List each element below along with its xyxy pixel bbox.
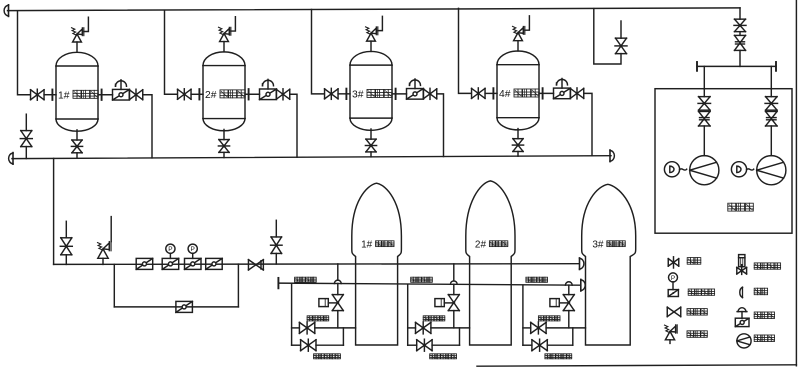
gate valve on stub A <box>60 238 72 265</box>
hydraulic gate valve stove 2 <box>435 295 459 311</box>
pipe riser from top header to tank 4 inlet <box>459 8 472 93</box>
pipe tank 1 discharge drop <box>143 95 152 158</box>
pipe stub with valve left of tank 1 <box>25 114 27 158</box>
legend safety valve symbol <box>665 325 678 344</box>
equalizing loop stove 2 <box>408 328 460 345</box>
header end tick right <box>775 62 777 71</box>
pipe L-branch from top header <box>594 9 621 64</box>
hydraulic gate valve stove 1 <box>319 295 343 311</box>
pipe stove 1 branch left leg <box>291 284 293 346</box>
safety relief valve on lower main <box>98 242 112 265</box>
pipe inlet spool tank 1 <box>44 94 56 96</box>
jump-over on 冷风总管 at stove 3 <box>565 282 572 285</box>
label 冷风总管 stove 1 <box>295 277 317 282</box>
label 1#空气罐 <box>58 90 98 101</box>
cold blast main pipe 冷风总管 <box>278 283 580 285</box>
gate valve on equalizing loop stove 3 <box>532 339 547 351</box>
gate valve on branch stove 1 <box>299 322 314 334</box>
cold blast main start tick <box>277 278 279 288</box>
svg-text:3#: 3# <box>592 240 604 251</box>
pipe compressor 1 discharge <box>703 89 705 96</box>
flange tick tank 2 inlet <box>198 89 200 99</box>
pipe stub B <box>275 220 277 237</box>
gate valve on station drop <box>734 19 746 32</box>
gate valve on branch stove 2 <box>416 322 431 334</box>
gate valve tank 3 outlet <box>423 88 437 99</box>
pipe stove 2 blast drop upper <box>453 264 455 281</box>
drawing border right <box>795 0 797 366</box>
pipe tank 1 drain stub <box>76 130 78 140</box>
flange tick tank 3 inlet <box>345 89 347 99</box>
label 煤气均压管 stove 3 <box>545 354 572 359</box>
flange tick tank 2 outlet <box>248 89 250 99</box>
pneumatic butterfly valve tank 3 <box>407 79 424 99</box>
hydraulic gate valve stove 3 <box>550 295 574 311</box>
label 冷风支管 stove 1 <box>307 316 329 321</box>
legend label 闸阀 <box>687 258 701 265</box>
pipe tank 1 drain to header <box>76 153 78 158</box>
pneumatic butterfly valve tank 2 <box>260 79 277 99</box>
pipe riser from top header to tank 3 inlet <box>312 9 325 93</box>
drawing border bottom <box>477 365 796 366</box>
jump-over on 冷风总管 at stove 1 <box>334 280 341 283</box>
pipe stove 2 blast drop lower <box>453 284 455 294</box>
pipe L-branch stub <box>620 21 622 38</box>
legend pneumatic butterfly valve symbol <box>668 273 678 297</box>
label 2#空气罐 <box>205 90 245 101</box>
gate valve tank 4 inlet <box>472 88 486 99</box>
label 3# 热风炉 <box>592 240 625 251</box>
svg-text:2#: 2# <box>475 240 487 251</box>
pipe stove 2 drop to branch <box>453 311 455 328</box>
pipe tank 2 drain to header <box>223 152 225 157</box>
pipe stove 3 drop to branch <box>568 311 570 328</box>
pipe tank 4 discharge drop <box>584 93 592 155</box>
hot blast stove 1#热风炉 <box>352 183 402 345</box>
equalizing loop stove 3 <box>523 328 573 345</box>
air tank 3#空气罐 vessel <box>350 51 392 130</box>
pipe bypass riser <box>237 264 239 307</box>
pipe tank 2 outlet <box>245 93 260 95</box>
gate valve tank 2 outlet <box>276 89 290 100</box>
svg-text:P: P <box>671 275 675 282</box>
compressor suction header <box>697 65 776 67</box>
pneumatic butterfly valve 3 lower main <box>185 258 202 269</box>
pipe riser from top header to tank 2 inlet <box>165 11 178 95</box>
legend gate valve symbol <box>668 257 679 268</box>
pneumatic butterfly valve tank 4 <box>554 79 571 99</box>
air compressor 1 空压机 <box>690 156 719 185</box>
pipe inlet spool tank 2 <box>191 93 203 95</box>
pipe bottom collecting header <box>12 156 611 159</box>
gate valve on branch stove 3 <box>531 322 546 334</box>
pipe compressor 1 discharge upper <box>703 66 705 89</box>
pipe tank 1 outlet <box>98 94 113 96</box>
hot blast stove 3#热风炉 <box>582 184 636 345</box>
pneumatic butterfly valve 1 lower main <box>136 258 153 269</box>
safety valve tank 3 <box>366 16 383 41</box>
label 3#空气罐 <box>352 89 392 100</box>
pipe compressor 2 riser <box>770 126 772 156</box>
svg-text:P: P <box>191 246 195 253</box>
gate valve tank 4 outlet <box>570 88 584 99</box>
pipe tank 4 outlet <box>539 92 554 94</box>
gate valve compressor 2 <box>765 97 778 111</box>
gate valve tank 1 outlet <box>129 89 143 100</box>
gate valve on equalizing loop stove 1 <box>301 339 316 351</box>
compressor station boundary box <box>655 89 792 234</box>
cold blast branch 冷风支管 stove 1 <box>292 327 356 329</box>
pipe tank 2 relief stub <box>223 42 225 52</box>
legend label 安全阀 <box>687 331 707 338</box>
pipe main top header <box>8 8 741 11</box>
check valve compressor 1 <box>699 111 711 126</box>
pipe tank 1 relief stub <box>76 42 78 52</box>
pipe inlet spool tank 4 <box>485 92 497 94</box>
label 煤气均压管 stove 2 <box>430 354 457 359</box>
gate valve tank 1 inlet <box>31 89 45 100</box>
air tank 2#空气罐 vessel <box>203 52 245 131</box>
gate valve tank 2 drain <box>218 140 229 153</box>
air compressor 2 空压机 <box>757 156 786 185</box>
label 冷风支管 stove 2 <box>423 316 445 321</box>
pipe compressor 1 riser <box>703 126 705 156</box>
label 冷风支管 stove 3 <box>538 316 560 321</box>
pipe tank 3 outlet <box>392 93 407 95</box>
equalizing loop stove 1 <box>292 328 344 345</box>
safety valve tank 2 <box>219 17 236 42</box>
legend hydraulic gate valve symbol <box>737 255 747 275</box>
svg-text:1#: 1# <box>361 240 373 251</box>
check valve lower main <box>248 260 263 270</box>
svg-text:3#: 3# <box>352 89 364 100</box>
gate valve on L-branch <box>615 38 627 54</box>
flange tick tank 1 inlet <box>51 90 53 100</box>
legend label 气动碟阀 <box>688 289 714 295</box>
gate valve compressor 1 <box>698 97 711 111</box>
end cap lower main right <box>580 258 584 270</box>
pipe bypass run <box>114 306 238 308</box>
pipe stove 1 blast drop lower <box>337 284 339 295</box>
jump-over on 冷风总管 at stove 2 <box>450 281 457 284</box>
pneumatic butterfly valve tank 1 <box>113 80 130 100</box>
pipe stove 1 drop to branch <box>337 311 339 328</box>
label 冷风总管 stove 3 <box>526 277 548 282</box>
pipe tank 3 drain stub <box>370 129 372 139</box>
air tank 4#空气罐 vessel <box>497 51 539 130</box>
hot blast stove 2#热风炉 <box>466 181 515 345</box>
header end tick left <box>696 62 698 71</box>
check valve compressor 2 <box>766 111 778 126</box>
pipe riser from top header to tank 1 inlet <box>18 12 31 95</box>
butterfly valve on bypass <box>176 301 193 312</box>
gate valve tank 1 drain <box>71 140 82 153</box>
pipe compressor 2 discharge <box>770 89 772 96</box>
pipe stove 3 branch left leg <box>522 285 524 345</box>
flange tick tank 1 outlet <box>101 90 103 100</box>
label 2# 热风炉 <box>475 240 508 251</box>
svg-text:P: P <box>168 246 172 253</box>
svg-text:1#: 1# <box>58 90 70 101</box>
legend label 空压机 <box>754 335 774 342</box>
pipe stove 1 blast drop upper <box>337 264 339 280</box>
motor compressor 2 <box>731 162 753 177</box>
flange tick tank 4 inlet <box>492 88 494 98</box>
air tank 1#空气罐 vessel <box>56 52 98 131</box>
gate valve on stub B <box>271 237 283 264</box>
pipe tank 4 relief stub <box>517 41 519 51</box>
svg-text:2#: 2# <box>205 90 217 101</box>
pipe stub A <box>65 221 67 238</box>
pipe stove 2 branch left leg <box>407 284 409 345</box>
pipe tank 4 drain to header <box>517 151 519 156</box>
pipe tank 2 drain stub <box>223 129 225 139</box>
gate valve on equalizing loop stove 2 <box>417 339 432 351</box>
pipe downcomer left <box>53 158 55 264</box>
pipe to station header <box>739 50 741 66</box>
pneumatic butterfly valve 2 lower main <box>162 258 179 269</box>
legend pipe cap symbol <box>740 287 743 297</box>
pipe compressor 2 discharge upper <box>770 66 772 89</box>
label 1# 热风炉 <box>361 240 394 251</box>
pressure gauge P1 <box>166 244 175 258</box>
pipe tank 3 relief stub <box>370 41 372 51</box>
pipe tank 3 drain to header <box>370 152 372 157</box>
label 冷风总管 stove 2 <box>411 277 433 282</box>
cold blast branch 冷风支管 stove 2 <box>408 327 470 329</box>
pipe tank 3 discharge drop <box>437 94 444 157</box>
pipe spool on station drop <box>739 32 741 36</box>
legend label 液动闸阀 <box>754 263 780 269</box>
legend pressure reducing valve symbol <box>735 308 749 327</box>
label 煤气均压管 stove 1 <box>314 354 341 359</box>
legend label 止回阀 <box>687 309 707 316</box>
pressure gauge P2 <box>188 244 197 258</box>
end cap top-left <box>4 5 8 17</box>
legend air compressor symbol <box>737 334 751 348</box>
legend label 减压阀 <box>754 312 774 319</box>
pipe tank 4 drain stub <box>517 129 519 139</box>
end cap cold blast main <box>581 279 585 291</box>
label 空压站 <box>728 203 754 211</box>
pipe stove 3 blast drop lower <box>568 285 570 294</box>
label 4#空气罐 <box>499 89 539 100</box>
pipe lower main line <box>54 263 579 266</box>
safety valve tank 1 <box>72 17 89 42</box>
pipe tank 2 discharge drop <box>290 94 297 157</box>
pipe inlet spool tank 3 <box>338 93 350 95</box>
motor compressor 1 <box>664 162 686 177</box>
pipe drop from top header to station <box>739 8 741 19</box>
check valve on station drop <box>735 35 746 50</box>
flange tick tank 4 outlet <box>542 88 544 98</box>
pipe bypass drop <box>113 264 115 307</box>
gate valve on left stub <box>20 131 32 147</box>
gate valve tank 3 inlet <box>325 88 339 99</box>
legend label 管帽 <box>754 288 767 295</box>
pneumatic butterfly valve 4 lower main <box>206 258 223 269</box>
gate valve tank 2 inlet <box>178 89 192 100</box>
gate valve tank 3 drain <box>365 139 376 152</box>
cold blast branch 冷风支管 stove 3 <box>523 327 586 329</box>
gate valve tank 4 drain <box>512 139 523 152</box>
flange tick tank 3 outlet <box>395 89 397 99</box>
end cap bottom-left <box>9 153 13 165</box>
safety valve tank 4 <box>513 16 530 41</box>
svg-text:4#: 4# <box>499 89 511 100</box>
pipe relief vent <box>110 217 112 242</box>
legend check valve symbol <box>667 307 681 317</box>
end cap bottom-right <box>610 150 614 162</box>
